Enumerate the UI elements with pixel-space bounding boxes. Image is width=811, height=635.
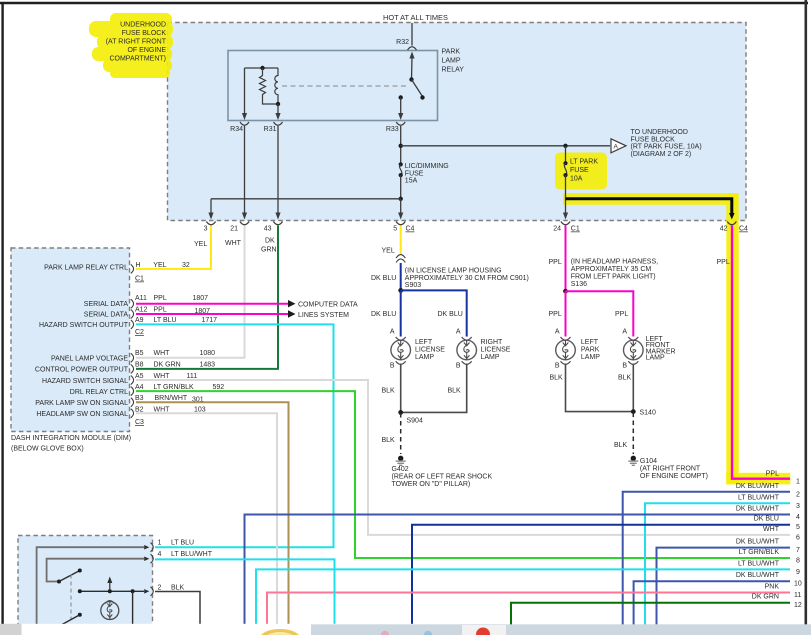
svg-text:B5: B5	[135, 350, 144, 357]
svg-text:LT BLU/WHT: LT BLU/WHT	[738, 494, 780, 501]
wire LT BLU/WHT switch pin 4 down off-page	[155, 559, 335, 624]
splice S904	[398, 410, 403, 415]
svg-text:PPL: PPL	[549, 259, 562, 266]
svg-text:PARK: PARK	[581, 347, 600, 354]
svg-text:FROM LEFT PARK LIGHT): FROM LEFT PARK LIGHT)	[571, 273, 656, 280]
svg-text:1: 1	[796, 479, 800, 486]
DIM pin B3 bracket	[131, 398, 134, 407]
svg-text:WHT: WHT	[154, 350, 171, 357]
page frame right border	[804, 0, 807, 626]
svg-text:BLK: BLK	[614, 442, 628, 449]
bottom edge pin 5 / C4	[396, 222, 405, 225]
right license lamp	[457, 337, 477, 364]
wire LT PARK FUSE down to feed corner	[565, 175, 567, 213]
white icon box with red circle	[462, 625, 506, 635]
wire PPL S136 to left park lamp	[565, 291, 567, 336]
svg-text:DRL RELAY CTRL: DRL RELAY CTRL	[70, 389, 128, 396]
svg-text:RELAY: RELAY	[442, 67, 465, 74]
svg-text:LT BLU: LT BLU	[154, 317, 177, 324]
wire DK BLU/WHT row 4	[245, 515, 791, 625]
svg-text:C3: C3	[135, 419, 144, 426]
wire BLK right license lamp to S904	[402, 364, 467, 413]
DIM pin A9 bracket	[131, 320, 134, 329]
bottom edge pin 24 / C1	[561, 222, 570, 225]
svg-text:1807: 1807	[193, 295, 209, 302]
DIM pin H bracket	[131, 264, 134, 273]
LIC/DIMMING FUSE 15A	[399, 162, 403, 166]
wire from contact down to R33 pin	[400, 98, 402, 115]
relay coil top node wire	[245, 67, 279, 69]
svg-text:SERIAL DATA: SERIAL DATA	[84, 312, 129, 319]
svg-text:PPL: PPL	[154, 306, 167, 313]
wire BLK switch pin 2 down off-page	[155, 592, 200, 625]
wire A12 PPL serial data	[136, 313, 288, 315]
WHT riser wire pin21 to DIM B5	[136, 226, 245, 358]
svg-text:WHT: WHT	[154, 406, 171, 413]
switch pin 4 symbol	[144, 557, 149, 562]
wire DK BLU S903 branch to right license lamp	[401, 290, 467, 336]
bottom edge pin 21	[240, 222, 249, 225]
wire B3 BRN/WHT down off-page	[136, 402, 289, 625]
junction dot	[399, 197, 403, 201]
svg-text:S140: S140	[640, 410, 656, 417]
svg-text:(BELOW GLOVE BOX): (BELOW GLOVE BOX)	[11, 446, 84, 453]
svg-text:DK BLU/WHT: DK BLU/WHT	[736, 483, 780, 490]
svg-text:C4: C4	[739, 226, 748, 233]
switch internal wire to pin 4	[47, 559, 144, 582]
wire fuse to junction at y=199	[400, 175, 402, 199]
svg-text:LT GRN/BLK: LT GRN/BLK	[154, 384, 195, 391]
svg-text:111: 111	[187, 373, 198, 380]
svg-text:COMPUTER DATA: COMPUTER DATA	[298, 302, 358, 309]
svg-text:12: 12	[794, 602, 802, 609]
svg-text:COMPARTMENT): COMPARTMENT)	[109, 56, 166, 63]
wire BLK left park lamp to S140	[566, 364, 632, 412]
connector cups R34 R31 R33 below relay	[240, 122, 249, 125]
switch pin 2 symbol	[144, 589, 149, 594]
UNDERHOOD FUSE BLOCK note text	[106, 22, 167, 63]
svg-text:GRN: GRN	[261, 247, 277, 254]
svg-text:LAMP: LAMP	[481, 354, 500, 361]
svg-text:8: 8	[796, 558, 800, 565]
wire A11 PPL serial data	[136, 303, 288, 305]
svg-text:3: 3	[204, 226, 208, 233]
svg-text:LAMP: LAMP	[415, 354, 434, 361]
wire R32 from hot-at-all-times into relay	[411, 23, 413, 46]
svg-text:B: B	[622, 363, 627, 370]
svg-text:PNK: PNK	[765, 584, 780, 591]
yellow highlighter band along PPL wire (vertical)	[726, 193, 738, 484]
DIM pin B8 bracket	[131, 364, 134, 373]
svg-text:A5: A5	[135, 373, 144, 380]
svg-text:C2: C2	[135, 329, 144, 336]
svg-text:HOT AT ALL TIMES: HOT AT ALL TIMES	[383, 13, 448, 22]
svg-text:S904: S904	[407, 418, 423, 425]
svg-text:LICENSE: LICENSE	[415, 347, 445, 354]
svg-text:PPL: PPL	[615, 311, 628, 318]
svg-text:DK GRN: DK GRN	[154, 361, 181, 368]
coil in relay	[275, 68, 278, 104]
wire PPL pin 42 down and right to connector pin 1	[732, 226, 790, 479]
svg-text:4: 4	[796, 514, 800, 521]
relay switch pivot dot	[409, 77, 413, 81]
svg-text:HEADLAMP SW ON SIGNAL: HEADLAMP SW ON SIGNAL	[36, 411, 128, 418]
resistor bottom connection to coil bottom	[263, 100, 279, 105]
svg-text:PANEL LAMP VOLTAGE: PANEL LAMP VOLTAGE	[51, 355, 128, 362]
svg-text:R32: R32	[396, 39, 409, 46]
svg-text:B: B	[390, 363, 395, 370]
junction dot to panel lamp	[108, 589, 112, 593]
splice S136	[563, 289, 568, 294]
svg-text:SERIAL DATA: SERIAL DATA	[84, 301, 129, 308]
svg-text:5: 5	[796, 524, 800, 531]
wire A4 LT GRN/BLK to connector pin 8	[136, 391, 790, 558]
svg-text:PARK LAMP SW ON SIGNAL: PARK LAMP SW ON SIGNAL	[35, 400, 128, 407]
svg-text:24: 24	[553, 226, 561, 233]
svg-text:1080: 1080	[200, 350, 216, 357]
svg-text:LAMP: LAMP	[581, 354, 600, 361]
svg-text:DASH INTEGRATION MODULE (DIM): DASH INTEGRATION MODULE (DIM)	[11, 435, 131, 442]
svg-text:CONTROL POWER OUTPUT: CONTROL POWER OUTPUT	[35, 367, 129, 374]
svg-text:1: 1	[158, 540, 162, 547]
svg-text:(IN HEADLAMP HARNESS,: (IN HEADLAMP HARNESS,	[571, 258, 658, 265]
svg-text:FUSE BLOCK: FUSE BLOCK	[122, 30, 167, 37]
svg-text:B: B	[555, 363, 560, 370]
wire YEL below pin 5	[400, 226, 402, 256]
wire R31: coil bottom down to relay pin	[277, 104, 279, 114]
branch wire to pin 3	[211, 198, 401, 200]
junction dot LT PARK FUSE branch	[563, 144, 567, 148]
svg-text:S903: S903	[405, 282, 421, 289]
svg-text:DK: DK	[265, 238, 275, 245]
thick black feed wire (highlighted) to pin 42	[566, 199, 732, 214]
svg-text:DK BLU: DK BLU	[438, 311, 463, 318]
yellow highlighter over LT PARK FUSE label	[555, 153, 607, 190]
wire BLK left license lamp to S904	[400, 364, 402, 413]
DIM left-side labels	[35, 265, 129, 418]
svg-text:TO UNDERHOOD: TO UNDERHOOD	[631, 129, 688, 136]
svg-text:TOWER ON "D" PILLAR): TOWER ON "D" PILLAR)	[392, 481, 471, 488]
svg-text:15A: 15A	[405, 178, 418, 185]
switch pin 1 symbol	[144, 545, 149, 550]
svg-text:A9: A9	[135, 317, 144, 324]
svg-text:C1: C1	[135, 276, 144, 283]
svg-text:R34: R34	[230, 126, 243, 133]
svg-text:A: A	[390, 329, 395, 336]
svg-text:A11: A11	[135, 295, 147, 302]
svg-text:592: 592	[213, 384, 225, 391]
taskbar strip	[311, 624, 811, 635]
svg-text:PPL: PPL	[549, 311, 562, 318]
wire BLK dashed to G104	[632, 413, 634, 455]
gray corner box	[0, 624, 22, 635]
svg-text:PARK LAMP RELAY CTRL: PARK LAMP RELAY CTRL	[44, 265, 128, 272]
svg-text:WHT: WHT	[763, 526, 780, 533]
svg-text:B2: B2	[135, 406, 144, 413]
switch lever 2	[78, 613, 82, 617]
svg-text:UNDERHOOD: UNDERHOOD	[120, 22, 166, 29]
svg-text:YEL: YEL	[382, 248, 395, 255]
svg-text:C4: C4	[406, 226, 415, 233]
bottom edge pin 43	[273, 222, 282, 225]
svg-text:DK BLU: DK BLU	[754, 516, 779, 523]
svg-text:APPROXIMATELY 30 CM FROM C901): APPROXIMATELY 30 CM FROM C901)	[405, 275, 529, 282]
DIM pin A4 bracket	[131, 387, 134, 396]
wire R34: top node down to relay pin	[244, 68, 246, 114]
ground G402	[396, 456, 406, 466]
svg-text:LAMP: LAMP	[646, 355, 665, 362]
DIM pin B5 bracket	[131, 353, 134, 362]
wire DK BLU S903 to left license lamp	[400, 290, 402, 336]
svg-text:103: 103	[194, 406, 206, 413]
wire LT BLU/WHT row 9	[256, 569, 790, 624]
bottom edge pin 3	[206, 222, 215, 225]
svg-text:A4: A4	[135, 384, 144, 391]
wire DK BLU row 5	[412, 525, 790, 625]
up arrow from pin2 wire	[109, 581, 111, 591]
svg-text:PPL: PPL	[717, 259, 730, 266]
svg-text:APPROXIMATELY 35 CM: APPROXIMATELY 35 CM	[571, 266, 652, 273]
wire DK BLU/WHT row 10	[634, 581, 790, 624]
page frame top border	[0, 2, 808, 5]
svg-text:LICENSE: LICENSE	[481, 347, 511, 354]
svg-text:DK BLU/WHT: DK BLU/WHT	[736, 539, 780, 546]
wire DK BLU/WHT row 7	[657, 548, 791, 625]
svg-text:HAZARD SWITCH SIGNAL: HAZARD SWITCH SIGNAL	[42, 378, 128, 385]
headlamp switch box (blue dashed, bottom left)	[18, 536, 153, 635]
wire PNK row 11	[267, 593, 790, 625]
A triangle off-page reference	[611, 139, 626, 153]
park lamp relay box	[228, 51, 438, 121]
connector cap at R32 relay pin	[408, 47, 417, 50]
resistor (zigzag) in relay	[260, 68, 266, 100]
svg-text:BLK: BLK	[171, 585, 185, 592]
wire PPL pin 24 to S136	[565, 226, 567, 292]
svg-text:FUSE: FUSE	[405, 170, 424, 177]
yellow highlighter band along thick black feed wire (horizontal)	[563, 193, 738, 205]
junction dot to fuse-block feed	[399, 144, 403, 148]
switch lever 1	[57, 580, 61, 584]
wire A9 LT BLU to headlamp switch pin 1	[136, 324, 334, 547]
yellow highlighter blob over UNDERHOOD FUSE BLOCK note	[89, 13, 173, 78]
svg-text:LT BLU/WHT: LT BLU/WHT	[738, 560, 780, 567]
svg-text:OF ENGINE: OF ENGINE	[127, 47, 166, 54]
svg-text:(DIAGRAM 2 OF 2): (DIAGRAM 2 OF 2)	[631, 151, 692, 158]
svg-text:PPL: PPL	[766, 470, 779, 477]
wire A5 WHT to connector pin 6	[136, 380, 790, 535]
svg-text:FUSE: FUSE	[570, 167, 589, 174]
switch internal wire to pin 1	[37, 547, 144, 624]
wire R33 pin down to junction	[400, 126, 402, 164]
svg-text:BLK: BLK	[382, 437, 396, 444]
junction dot down riser	[131, 589, 135, 593]
svg-text:BRN/WHT: BRN/WHT	[155, 395, 188, 402]
wire junction down to pin 5	[400, 199, 402, 214]
left front marker lamp	[624, 337, 644, 364]
svg-text:4: 4	[158, 551, 162, 558]
svg-text:11: 11	[794, 592, 801, 599]
svg-text:LEFT: LEFT	[415, 339, 433, 346]
svg-text:B8: B8	[135, 361, 144, 368]
wire BLK dashed to G402	[400, 413, 402, 454]
bottom edge pin 42 / C4	[727, 222, 736, 225]
underhood fuse block box (blue dashed)	[168, 23, 747, 221]
junction dot top of resistor	[260, 66, 264, 70]
svg-text:LT BLU/WHT: LT BLU/WHT	[171, 551, 213, 558]
svg-text:BLK: BLK	[382, 388, 396, 395]
svg-text:32: 32	[182, 262, 190, 269]
svg-text:LIC/DIMMING: LIC/DIMMING	[405, 163, 449, 170]
svg-text:LINES SYSTEM: LINES SYSTEM	[298, 312, 349, 319]
DIM box (dash integration module, blue dashed)	[11, 248, 130, 432]
relay switch lever (open)	[412, 80, 423, 97]
svg-text:1483: 1483	[200, 361, 216, 368]
relay internal dashed actuator line	[282, 85, 407, 87]
svg-text:H: H	[136, 262, 141, 269]
LT PARK FUSE 10A	[565, 146, 567, 163]
svg-text:HAZARD SWITCH OUTPUT: HAZARD SWITCH OUTPUT	[39, 322, 129, 329]
page frame left border	[1, 2, 3, 626]
svg-text:6: 6	[796, 534, 800, 541]
svg-text:A: A	[555, 329, 560, 336]
svg-text:WHT: WHT	[154, 373, 171, 380]
white overlay box	[22, 624, 507, 635]
wire DK GRN row 12	[511, 603, 790, 625]
relay switch stationary contact	[399, 95, 403, 99]
svg-text:(RT PARK FUSE, 10A): (RT PARK FUSE, 10A)	[631, 144, 702, 151]
svg-text:A12: A12	[135, 306, 148, 313]
svg-text:BLK: BLK	[448, 388, 462, 395]
svg-text:DK BLU/WHT: DK BLU/WHT	[736, 572, 780, 579]
svg-text:DK BLU: DK BLU	[371, 311, 396, 318]
wire R31 pin to connector 43	[277, 126, 279, 214]
ground G104	[628, 456, 638, 466]
svg-text:C1: C1	[571, 226, 580, 233]
svg-text:A: A	[456, 329, 461, 336]
svg-text:PPL: PPL	[154, 295, 167, 302]
svg-text:R31: R31	[264, 126, 277, 133]
svg-text:LEFT: LEFT	[581, 339, 599, 346]
yellow logo peeking	[260, 629, 300, 635]
faint taskbar icons	[381, 631, 389, 635]
svg-text:YEL: YEL	[153, 262, 166, 269]
DIM pin A11 bracket	[131, 299, 134, 308]
inline connector on pin5 wire	[396, 255, 405, 263]
svg-text:(AT RIGHT FRONT: (AT RIGHT FRONT	[106, 39, 167, 46]
wire down from pin2 node	[132, 591, 134, 624]
junction dot bottom of coil	[276, 102, 280, 106]
svg-text:G104: G104	[640, 458, 657, 465]
svg-text:2: 2	[158, 585, 162, 592]
yellow highlighter band along PPL wire to pin 1 (horizontal)	[726, 473, 790, 485]
relay switch common: up-arrow and stem	[409, 52, 414, 59]
splice S140	[631, 409, 636, 414]
switch mechanical link (dashed)	[70, 575, 72, 620]
svg-text:A: A	[622, 329, 627, 336]
svg-text:1717: 1717	[202, 317, 218, 324]
svg-text:3: 3	[796, 503, 800, 510]
svg-text:BLK: BLK	[618, 375, 632, 382]
left park lamp	[556, 337, 576, 364]
DIM pin A5 bracket	[131, 376, 134, 385]
svg-text:WHT: WHT	[225, 240, 242, 247]
svg-text:S136: S136	[571, 281, 587, 288]
svg-text:5: 5	[393, 226, 397, 233]
svg-text:B3: B3	[135, 395, 144, 402]
svg-text:G402: G402	[392, 466, 409, 473]
svg-text:7: 7	[796, 547, 800, 554]
wire B2 WHT down off-page	[136, 413, 277, 625]
svg-text:DK GRN: DK GRN	[752, 594, 779, 601]
svg-text:10: 10	[794, 581, 802, 588]
YEL riser wire pin3 to DIM H	[136, 226, 211, 269]
DIM pin A12 bracket	[131, 310, 134, 319]
svg-text:LT BLU: LT BLU	[171, 540, 194, 547]
svg-text:LAMP: LAMP	[442, 58, 461, 65]
svg-text:PARK: PARK	[442, 49, 461, 56]
svg-text:2: 2	[796, 492, 800, 499]
wire to A-triangle (to underhood fuse block)	[401, 145, 610, 147]
wire DK BLU to S903	[400, 263, 402, 290]
wire DK BLU/WHT row 2	[623, 492, 790, 625]
svg-text:(IN LICENSE LAMP HOUSING: (IN LICENSE LAMP HOUSING	[405, 267, 502, 274]
panel lamp inside switch	[105, 601, 114, 604]
svg-text:LT PARK: LT PARK	[570, 158, 598, 165]
svg-text:21: 21	[230, 226, 238, 233]
DK GRN riser wire pin43 to DIM B8	[136, 226, 278, 369]
svg-text:(AT RIGHT FRONT: (AT RIGHT FRONT	[640, 466, 701, 473]
switch internal wire to pin 2	[80, 590, 144, 592]
splice S903	[398, 288, 403, 293]
svg-text:BLK: BLK	[550, 375, 564, 382]
svg-text:(REAR OF LEFT REAR SHOCK: (REAR OF LEFT REAR SHOCK	[392, 474, 493, 481]
svg-text:DK BLU/WHT: DK BLU/WHT	[736, 506, 780, 513]
svg-text:A: A	[614, 144, 619, 151]
wire BLK marker lamp to S140	[632, 364, 634, 412]
svg-text:YEL: YEL	[194, 241, 207, 248]
svg-text:42: 42	[720, 226, 728, 233]
svg-text:DK BLU: DK BLU	[371, 275, 396, 282]
svg-text:9: 9	[796, 569, 800, 576]
svg-text:R33: R33	[386, 126, 399, 133]
svg-text:FUSE BLOCK: FUSE BLOCK	[631, 136, 676, 143]
wire PPL S136 branch to marker lamp	[566, 291, 634, 336]
left license lamp	[391, 337, 411, 364]
svg-text:LT GRN/BLK: LT GRN/BLK	[739, 549, 780, 556]
svg-text:RIGHT: RIGHT	[481, 339, 504, 346]
wire R34 pin to connector 21	[244, 126, 246, 214]
svg-text:43: 43	[264, 226, 272, 233]
svg-text:10A: 10A	[570, 176, 583, 183]
svg-text:OF ENGINE COMPT): OF ENGINE COMPT)	[640, 473, 708, 480]
svg-text:B: B	[456, 363, 461, 370]
wire LT BLU/WHT row 3	[645, 503, 790, 624]
DIM pin B2 bracket	[131, 409, 134, 418]
